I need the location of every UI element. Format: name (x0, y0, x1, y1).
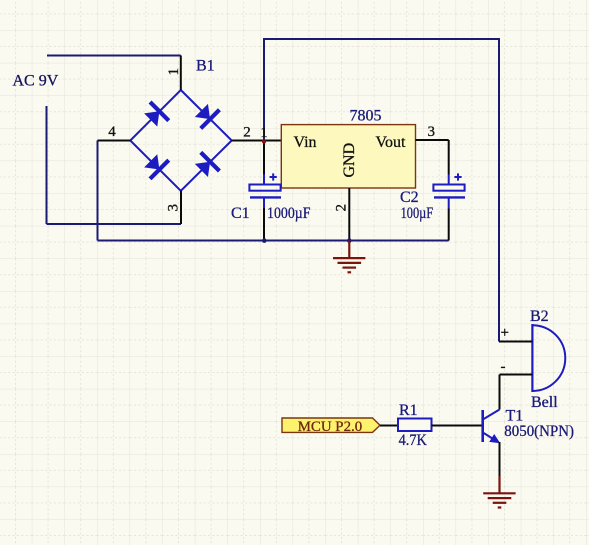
pin 2 of B1 joined with pin 1 of U1 (232, 140, 282, 142)
wire port to R1 (380, 425, 398, 427)
transistor T1 (483, 410, 501, 444)
wire emitter to ground (499, 442, 501, 477)
pin 3 of U1 (416, 139, 449, 141)
pin 3 of B1 (180, 191, 182, 224)
capacitor C1 (249, 173, 281, 197)
svg-text:GND: GND (341, 143, 358, 178)
wire C1 vertical lower (263, 208, 265, 241)
svg-text:Vout: Vout (376, 134, 406, 151)
wire bell minus to collector (499, 375, 501, 410)
svg-text:R1: R1 (399, 402, 418, 419)
svg-text:B2: B2 (530, 308, 549, 325)
diode D-bottomright of B1 (192, 152, 219, 179)
wire top rail from Vin node up over to bell (264, 39, 499, 342)
junction dot GND on bus (347, 238, 352, 243)
svg-text:8050(NPN): 8050(NPN) (504, 423, 574, 440)
svg-text:3: 3 (166, 204, 182, 212)
ground symbol at bus (333, 241, 365, 273)
svg-text:T1: T1 (506, 408, 524, 425)
wire C2 vertical lower (448, 209, 450, 241)
pin - of B2 (500, 374, 533, 376)
svg-text:C1: C1 (231, 205, 250, 222)
pin 1 of B1 (180, 56, 182, 91)
wire C2 vertical upper (448, 140, 450, 175)
pin + of C2 (448, 175, 450, 186)
pin + of C1 (263, 174, 265, 185)
junction dot C1 on bus (262, 238, 267, 243)
svg-text:4: 4 (108, 124, 116, 140)
svg-text:Bell: Bell (531, 394, 558, 411)
pin 4 of B1 (98, 140, 131, 142)
svg-text:2: 2 (334, 204, 350, 212)
regulator U1 7805 body (281, 125, 415, 188)
svg-text:7805: 7805 (350, 108, 382, 125)
pin - of C1 (263, 198, 265, 209)
bridge rectifier B1 (130, 90, 231, 191)
diode D-topright of B1 (192, 101, 219, 128)
wire AC top from source to bridge pin 1 (47, 55, 181, 57)
svg-text:1: 1 (260, 125, 268, 141)
wire R1 to base of T1 (432, 425, 483, 427)
svg-text:-: - (501, 359, 506, 375)
capacitor C2 (433, 173, 465, 197)
pin - of C2 (448, 198, 450, 209)
wire bottom bus (98, 240, 449, 242)
bell B2 (532, 324, 565, 392)
wire AC bottom vertical from source (46, 106, 48, 224)
svg-text:Vin: Vin (294, 134, 317, 151)
svg-text:3: 3 (428, 124, 436, 140)
pin 2 of U1 to ground bus (348, 188, 350, 241)
svg-text:C2: C2 (400, 189, 419, 206)
svg-text:4.7K: 4.7K (399, 432, 428, 449)
junction at Vin node (262, 140, 266, 144)
diode D-topleft of B1 (141, 102, 168, 129)
svg-text:2: 2 (243, 125, 251, 141)
pin + of B2 (499, 341, 532, 343)
wire from bridge pin 4 down to bottom bus (97, 141, 99, 241)
wire AC bottom horizontal to bridge pin 3 (47, 223, 182, 225)
svg-text:AC 9V: AC 9V (13, 73, 59, 90)
svg-text:B1: B1 (196, 58, 215, 75)
svg-text:+: + (501, 325, 509, 341)
svg-text:100µF: 100µF (401, 205, 434, 222)
resistor R1 (398, 419, 432, 432)
diode D-bottomleft of B1 (141, 151, 168, 178)
wire C1 vertical upper (263, 141, 265, 175)
svg-text:MCU P2.0: MCU P2.0 (298, 419, 363, 435)
svg-text:1000µF: 1000µF (267, 205, 311, 222)
port MCU P2.0 (282, 418, 380, 435)
ground symbol at emitter (483, 476, 515, 508)
svg-text:1: 1 (166, 68, 182, 76)
